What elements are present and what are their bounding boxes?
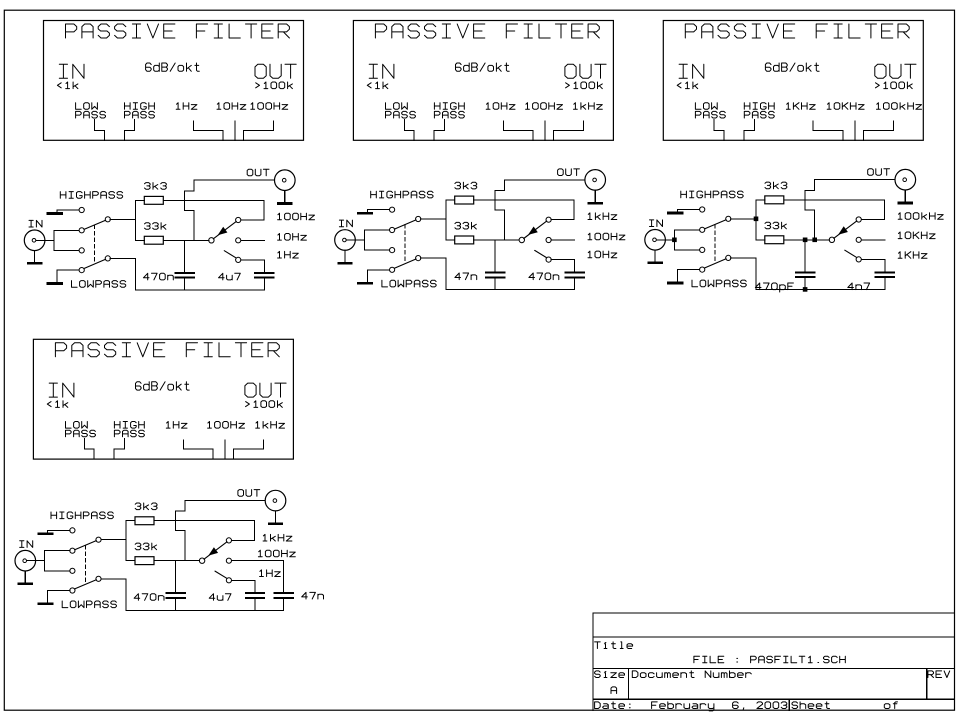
switch gang link (dashed) bbox=[714, 225, 716, 262]
resistor R2 (33k) bbox=[144, 236, 163, 244]
circuit 2 label LOWPASS bbox=[382, 280, 436, 287]
capacitor C2 bottom plate bbox=[246, 597, 264, 599]
rotary blade arrow bbox=[838, 226, 848, 234]
panel 1 label >100k bbox=[256, 82, 293, 89]
circuit 2 label HIGHPASS bbox=[371, 191, 433, 198]
circuit 1 value label 3k3 bbox=[145, 183, 167, 190]
circuit 4 output label 100Hz bbox=[258, 550, 295, 557]
title block label Size bbox=[595, 671, 625, 678]
panel 2 title PASSIVE FILTER bbox=[375, 24, 599, 38]
capacitor C1 bottom plate bbox=[486, 276, 505, 278]
wire C1 bottom lead bbox=[494, 278, 496, 289]
title block date February 6, 2003 bbox=[652, 702, 787, 711]
wire highpass throw to ground bbox=[57, 209, 79, 211]
panel 4 label 6dB/okt bbox=[136, 382, 190, 390]
panel 3 title PASSIVE FILTER bbox=[685, 24, 909, 38]
panel 1 label OUT bbox=[255, 64, 296, 78]
ground bar (OUT connector) bbox=[589, 202, 602, 205]
rotary unused throw stub bbox=[535, 250, 547, 257]
panel 3 outline (front panel drawing) bbox=[663, 21, 923, 141]
wire left bus (R1/R2 node) bbox=[135, 200, 137, 240]
ground bar (IN connector) bbox=[649, 262, 662, 265]
circuit 3 label OUT bbox=[868, 169, 890, 176]
panel 4 outline (front panel drawing) bbox=[33, 339, 293, 459]
ground bar (lowpass throw) bbox=[39, 603, 53, 606]
panel 1 frequency label 1Hz bbox=[176, 103, 197, 110]
panel 4 label LOW bbox=[66, 422, 88, 429]
circuit 3 value label 3k3 bbox=[765, 182, 787, 189]
wire lowpass pole down to bottom rail bbox=[755, 258, 757, 290]
wire lowpass pole down to bottom rail bbox=[445, 258, 447, 290]
rotary blade bbox=[834, 221, 857, 238]
switch S3b input contact bbox=[700, 247, 705, 252]
wire C1 top lead bbox=[174, 561, 176, 593]
ground stem (lowpass throw) bbox=[677, 270, 679, 282]
wire left bus (R1/R2 node) bbox=[755, 200, 757, 240]
wire bottom rail bbox=[756, 288, 885, 290]
wire R2 left lead bbox=[136, 239, 145, 241]
wire left bus (R1/R2 node) bbox=[125, 521, 127, 561]
wire C2 bottom lead bbox=[884, 278, 886, 289]
wire rotary contact 2 to C3 bbox=[232, 560, 284, 562]
panel 3 rotary switch mark left bbox=[813, 121, 843, 140]
circuit 4 value label 3k3 bbox=[135, 503, 157, 510]
capacitor C2 top plate (470n) bbox=[566, 272, 584, 274]
wire lowpass pole down to bottom rail bbox=[125, 579, 127, 611]
ground stem (OUT connector) bbox=[594, 190, 596, 202]
panel 2 label IN bbox=[369, 64, 394, 78]
title block label REV bbox=[928, 671, 950, 678]
panel 2 outline (front panel drawing) bbox=[353, 21, 613, 141]
title block outline bbox=[593, 613, 954, 710]
switch S1b input contact bbox=[79, 248, 84, 253]
rotary blade arrow bbox=[218, 227, 228, 235]
switch S3a blade bbox=[705, 220, 727, 229]
title block label of bbox=[884, 702, 897, 709]
circuit 1 label LOWPASS bbox=[72, 281, 126, 288]
connector J2a IN (BNC center pin) bbox=[343, 238, 347, 242]
panel 1 outline (front panel drawing) bbox=[44, 21, 304, 141]
wire bottom rail bbox=[126, 609, 283, 611]
panel 4 label PASS (low) bbox=[66, 430, 96, 437]
panel 1 label LOW bbox=[76, 103, 98, 110]
ground stem (highpass throw) bbox=[677, 210, 679, 212]
panel 2 frequency label 100Hz bbox=[526, 103, 563, 110]
switch S2b pole contact bbox=[416, 256, 421, 261]
switch S3b pole contact bbox=[726, 255, 731, 260]
wire tee to lower pole contact bbox=[54, 249, 79, 251]
circuit 2 output label 10Hz bbox=[588, 251, 617, 258]
switch gang link (dashed) bbox=[404, 225, 406, 262]
wire rotary contact 1 to R1 lead bbox=[241, 200, 264, 220]
wire R2 left lead bbox=[446, 239, 455, 241]
title block label Document Number bbox=[632, 671, 751, 678]
wire S4a pole to node bbox=[101, 539, 126, 541]
wire R1 left lead bbox=[136, 199, 145, 201]
panel 3 label IN bbox=[679, 64, 704, 78]
circuit 3 label HIGHPASS bbox=[681, 191, 743, 198]
wire rotary contact 3 to C2 bbox=[861, 259, 885, 271]
ground (IN connector) bbox=[654, 250, 656, 262]
wire lowpass throw to ground bbox=[367, 269, 389, 271]
switch S2a input contact bbox=[390, 227, 395, 232]
wire highpass throw to ground bbox=[48, 529, 70, 531]
wire S2a pole to node bbox=[421, 218, 446, 220]
wire S3b pole to node bbox=[731, 257, 756, 259]
capacitor C1 bottom plate bbox=[176, 277, 195, 279]
wire R2 left lead bbox=[126, 560, 135, 562]
rotary blade bbox=[524, 221, 547, 238]
wire R2 right lead to rotary pole bbox=[163, 239, 209, 241]
wire R1 right lead to selector bracket bbox=[784, 199, 885, 201]
circuit 4 label IN bbox=[20, 541, 33, 548]
panel 4 high-pass switch mark bbox=[114, 438, 124, 459]
ground bar (IN connector) bbox=[339, 262, 352, 265]
switch S4a blade bbox=[75, 541, 97, 550]
resistor R1 (3k3) bbox=[765, 196, 784, 204]
panel 2 high-pass switch mark bbox=[434, 120, 444, 141]
wire OUT net (BNC to rotary pole) bbox=[175, 501, 265, 561]
connector J4a IN (BNC outer) bbox=[15, 550, 36, 571]
panel 3 frequency label 1KHz bbox=[786, 103, 815, 110]
circuit 4 value label 4u7 bbox=[209, 594, 231, 601]
panel 3 rotary switch mark right bbox=[863, 121, 893, 140]
switch S3a pole contact bbox=[726, 216, 731, 221]
switch S2a throw contact (highpass) bbox=[390, 207, 395, 212]
title block divider (date/sheet) bbox=[788, 699, 790, 710]
ground bar (lowpass throw) bbox=[48, 282, 62, 285]
junction (C1 top node) bbox=[803, 238, 808, 243]
wire R1 left lead bbox=[126, 520, 135, 522]
ground bar (highpass throw) bbox=[669, 212, 683, 215]
panel 2 label PASS (high) bbox=[434, 111, 464, 118]
wire rotary contact 2 stub bbox=[241, 239, 264, 241]
wire R2 left lead bbox=[756, 239, 765, 241]
panel 2 rotary switch mark left bbox=[503, 121, 533, 140]
panel 3 label >100k bbox=[876, 82, 913, 89]
title block divider (below header strip) bbox=[593, 636, 954, 638]
wire IN pin to tee bbox=[27, 560, 45, 562]
panel 1 label PASS (low) bbox=[76, 111, 106, 118]
panel 3 label PASS (high) bbox=[744, 111, 774, 118]
title block label Date: bbox=[595, 702, 631, 709]
wire S4b pole to node bbox=[101, 578, 126, 580]
circuit 2 output label 1kHz bbox=[588, 213, 617, 220]
wire tee to lower pole contact bbox=[674, 249, 699, 251]
connector J1b OUT (BNC center pin) bbox=[282, 178, 286, 182]
wire C2 bottom lead bbox=[574, 278, 576, 289]
wire IN pin to tee bbox=[346, 239, 364, 241]
resistor R2 (33k) bbox=[135, 557, 154, 565]
title block label Sheet bbox=[792, 702, 830, 709]
circuit 1 output label 100Hz bbox=[278, 213, 315, 220]
capacitor C2 bottom plate bbox=[255, 277, 273, 279]
title block label Title bbox=[595, 642, 633, 649]
circuit 2 label OUT bbox=[558, 169, 580, 176]
panel 3 label <1k bbox=[677, 82, 698, 89]
circuit 4 value label 470n bbox=[134, 594, 164, 601]
title block divider (size/document) bbox=[628, 669, 630, 700]
wire C1 top lead bbox=[494, 240, 496, 272]
connector J4b OUT (BNC outer) bbox=[265, 490, 286, 511]
rotary switch S1c pole contact bbox=[209, 238, 214, 243]
switch gang link (dashed) bbox=[94, 225, 96, 262]
rotary contact 1 (100Hz) bbox=[236, 217, 241, 222]
circuit 4 label OUT bbox=[238, 490, 260, 497]
ground bar (IN connector) bbox=[28, 262, 41, 265]
wire C2 bottom lead bbox=[254, 599, 256, 610]
panel 2 low-pass switch mark bbox=[404, 120, 414, 141]
title block divider (above date row) bbox=[593, 698, 954, 700]
circuit 2 output label 100Hz bbox=[588, 233, 625, 240]
connector J4a IN (BNC center pin) bbox=[23, 559, 27, 563]
panel 4 low-pass switch mark bbox=[84, 438, 94, 459]
panel 3 rotary switch mark middle bbox=[854, 121, 856, 140]
connector J3a IN (BNC center pin) bbox=[653, 238, 657, 242]
panel 1 frequency label 10Hz bbox=[217, 103, 246, 110]
panel 3 high-pass switch mark bbox=[744, 120, 754, 141]
panel 3 frequency label 10KHz bbox=[827, 103, 864, 110]
connector J2b OUT (BNC outer) bbox=[585, 170, 606, 191]
switch S2b throw contact (lowpass) bbox=[390, 267, 395, 272]
circuit 2 label IN bbox=[339, 220, 352, 227]
circuit 1 value label 4u7 bbox=[219, 273, 241, 280]
circuit 3 output label 100kHz bbox=[898, 213, 943, 220]
wire rotary contact 2 stub bbox=[861, 239, 885, 241]
title block divider (document/rev) bbox=[926, 669, 928, 700]
rotary contact 3 (1Hz) bbox=[226, 578, 231, 583]
capacitor C1 bottom plate bbox=[796, 276, 815, 278]
panel 2 rotary switch mark middle bbox=[544, 121, 546, 140]
wire S1a pole to node bbox=[110, 218, 135, 220]
wire tee to lower pole contact bbox=[45, 570, 70, 572]
panel 1 rotary switch mark middle bbox=[234, 121, 236, 140]
wire rotary contact 1 to R1 lead bbox=[232, 521, 255, 541]
capacitor C3 top plate (47n) bbox=[274, 592, 293, 594]
wire tee vertical bbox=[53, 230, 55, 250]
panel 3 frequency label 100kHz bbox=[877, 103, 922, 110]
ground (IN connector) bbox=[24, 571, 26, 583]
wire R2 right lead to rotary pole bbox=[784, 239, 830, 241]
panel 2 label 6dB/okt bbox=[456, 63, 510, 71]
wire highpass throw to ground bbox=[678, 209, 700, 211]
wire tee to upper pole contact bbox=[54, 229, 79, 231]
switch S2a pole contact bbox=[416, 216, 421, 221]
switch S4a input contact bbox=[70, 548, 75, 553]
circuit 3 label IN bbox=[650, 220, 663, 227]
rotary contact 1 (1kHz) bbox=[226, 538, 231, 543]
ground stem (OUT connector) bbox=[904, 190, 906, 202]
connector J3b OUT (BNC outer) bbox=[895, 169, 916, 190]
switch S4a pole contact bbox=[96, 537, 101, 542]
capacitor C1 top plate (470n) bbox=[176, 272, 195, 274]
panel 2 label PASS (low) bbox=[386, 111, 416, 118]
circuit 3 value label 33k bbox=[765, 222, 786, 229]
ground bar (IN connector) bbox=[19, 582, 32, 585]
wire R1 left lead bbox=[446, 199, 455, 201]
switch S1b blade bbox=[84, 259, 106, 268]
rotary blade bbox=[213, 221, 236, 238]
wire tee to upper pole contact bbox=[674, 229, 699, 231]
switch S1b throw contact (lowpass) bbox=[79, 268, 84, 273]
wire lowpass throw to ground bbox=[48, 590, 70, 592]
circuit 4 output label 1kHz bbox=[263, 534, 292, 541]
wire C1 top lead bbox=[184, 240, 186, 272]
wire rotary contact 1 to R1 lead bbox=[861, 200, 884, 220]
connector J3a IN (BNC outer) bbox=[645, 230, 666, 251]
switch S1a throw contact (highpass) bbox=[79, 207, 84, 212]
rotary unused throw stub bbox=[224, 251, 236, 258]
wire IN pin to tee bbox=[36, 239, 54, 241]
capacitor C1 top plate (470n) bbox=[166, 592, 185, 594]
circuit 1 value label 470n bbox=[143, 273, 173, 280]
capacitor C1 bottom plate bbox=[166, 597, 185, 599]
wire C1 top lead bbox=[804, 240, 806, 272]
title block size value A bbox=[611, 687, 617, 694]
switch S1a input contact bbox=[79, 228, 84, 233]
wire tee vertical bbox=[363, 230, 365, 250]
wire lowpass throw to ground bbox=[678, 269, 700, 271]
rotary contact 3 (10Hz) bbox=[546, 257, 551, 262]
panel 1 high-pass switch mark bbox=[124, 120, 134, 141]
panel 2 label LOW bbox=[386, 103, 408, 110]
rotary switch S2c pole contact bbox=[519, 237, 524, 242]
switch S4b blade bbox=[75, 580, 97, 589]
circuit 2 value label 33k bbox=[455, 222, 476, 229]
panel 1 frequency label 100Hz bbox=[251, 103, 288, 110]
wire highpass throw to ground bbox=[367, 209, 389, 211]
panel 1 label PASS (high) bbox=[125, 111, 155, 118]
wire S1b pole to node bbox=[110, 257, 135, 259]
circuit 4 value label 47n bbox=[302, 592, 324, 599]
capacitor C3 bottom plate bbox=[274, 597, 293, 599]
connector J1b OUT (BNC outer) bbox=[275, 170, 296, 191]
panel 2 frequency label 10Hz bbox=[486, 103, 515, 110]
rotary contact 2 (100Hz) bbox=[226, 558, 231, 563]
resistor R2 (33k) bbox=[455, 236, 474, 244]
circuit 1 label OUT bbox=[247, 169, 269, 176]
ground bar (highpass throw) bbox=[358, 212, 372, 215]
wire OUT net (BNC to rotary pole) bbox=[185, 180, 275, 240]
circuit 1 output label 1Hz bbox=[278, 251, 299, 258]
rotary unused throw stub bbox=[215, 571, 227, 578]
panel 1 rotary switch mark left bbox=[193, 121, 223, 140]
circuit 3 value label 4n7 bbox=[848, 283, 870, 290]
panel 4 rotary switch mark right bbox=[233, 440, 263, 459]
switch S2b blade bbox=[394, 259, 416, 268]
junction (bottom rail node) bbox=[803, 287, 808, 292]
wire rotary contact 3 to C2 bbox=[232, 580, 256, 592]
switch S1a pole contact bbox=[105, 217, 110, 222]
circuit 2 value label 47n bbox=[455, 273, 477, 280]
panel 1 label IN bbox=[59, 64, 84, 78]
capacitor C1 top plate (470pF) bbox=[796, 271, 815, 273]
ground bar (highpass throw) bbox=[39, 533, 53, 536]
wire R1 left lead bbox=[756, 199, 765, 201]
ground stem (OUT connector) bbox=[284, 191, 286, 203]
panel 2 rotary switch mark right bbox=[553, 121, 583, 140]
wire OUT net (BNC to rotary pole) bbox=[805, 180, 895, 240]
switch S2b input contact bbox=[390, 248, 395, 253]
wire S3a pole to node bbox=[731, 218, 756, 220]
wire S2b pole to node bbox=[421, 257, 446, 259]
resistor R2 (33k) bbox=[765, 236, 784, 244]
circuit 3 output label 1KHz bbox=[898, 252, 927, 259]
circuit 1 output label 10Hz bbox=[278, 234, 307, 241]
capacitor C2 bottom plate bbox=[876, 276, 894, 278]
junction (left bus / pole wire) bbox=[754, 217, 759, 222]
wire C1 bottom lead bbox=[804, 278, 806, 289]
panel 4 label HIGH bbox=[114, 422, 144, 429]
title block text FILE : PASFILT1.SCH bbox=[694, 656, 845, 663]
panel 1 label HIGH bbox=[125, 103, 155, 110]
circuit 3 value label 470pF bbox=[755, 283, 793, 292]
panel 4 title PASSIVE FILTER bbox=[55, 343, 279, 357]
wire lowpass throw to ground bbox=[57, 269, 79, 271]
rotary contact 3 (1KHz) bbox=[856, 257, 861, 262]
circuit 4 label HIGHPASS bbox=[51, 512, 113, 519]
ground stem (highpass throw) bbox=[56, 210, 58, 212]
ground stem (highpass throw) bbox=[47, 530, 49, 532]
rotary contact 1 (100kHz) bbox=[856, 217, 861, 222]
panel 2 label >100k bbox=[566, 82, 603, 89]
ground (IN connector) bbox=[34, 251, 36, 263]
wire R2 right lead to rotary pole bbox=[474, 239, 520, 241]
wire C3 bottom lead bbox=[283, 599, 285, 610]
rotary contact 2 (100Hz) bbox=[546, 237, 551, 242]
circuit 4 output label 1Hz bbox=[260, 570, 281, 577]
capacitor C2 bottom plate bbox=[566, 276, 584, 278]
wire tee vertical bbox=[44, 551, 46, 571]
wire bottom rail bbox=[446, 289, 575, 291]
resistor R1 (3k3) bbox=[135, 517, 154, 525]
wire rotary contact 3 to C2 bbox=[551, 260, 575, 272]
panel 4 frequency label 100Hz bbox=[208, 422, 245, 429]
wire lowpass pole down to bottom rail bbox=[135, 258, 137, 290]
ground stem (lowpass throw) bbox=[47, 591, 49, 603]
circuit 4 value label 33k bbox=[135, 543, 156, 550]
rotary blade bbox=[204, 542, 227, 559]
panel 2 label OUT bbox=[565, 64, 606, 78]
circuit 2 value label 3k3 bbox=[455, 182, 477, 189]
circuit 3 output label 10KHz bbox=[898, 232, 935, 239]
ground stem (lowpass throw) bbox=[56, 270, 58, 282]
circuit 1 label HIGHPASS bbox=[60, 192, 122, 199]
panel 4 label PASS (high) bbox=[114, 430, 144, 437]
panel 1 title PASSIVE FILTER bbox=[66, 24, 290, 38]
rotary contact 1 (1kHz) bbox=[546, 217, 551, 222]
wire tee vertical bbox=[673, 230, 675, 250]
panel 1 label <1k bbox=[57, 82, 78, 89]
connector J3b OUT (BNC center pin) bbox=[903, 178, 907, 182]
panel 3 label OUT bbox=[875, 64, 916, 78]
capacitor C2 top plate (4n7) bbox=[876, 271, 894, 273]
panel 2 frequency label 1kHz bbox=[574, 103, 603, 110]
panel 4 rotary switch mark middle bbox=[224, 440, 226, 459]
ground bar (OUT connector) bbox=[269, 523, 282, 526]
circuit 3 label LOWPASS bbox=[692, 280, 746, 287]
capacitor C2 top plate (4u7) bbox=[246, 592, 264, 594]
panel 3 low-pass switch mark bbox=[714, 120, 724, 141]
panel 1 label 6dB/okt bbox=[146, 63, 200, 71]
wire R1 right lead to selector bracket bbox=[154, 520, 255, 522]
wire rotary contact 1 to R1 lead bbox=[551, 200, 574, 220]
capacitor C1 top plate (47n) bbox=[486, 272, 505, 274]
wire OUT net (BNC to rotary pole) bbox=[495, 180, 585, 240]
ground bar (OUT connector) bbox=[278, 202, 291, 205]
panel 4 label >100k bbox=[246, 401, 283, 408]
ground bar (OUT connector) bbox=[899, 202, 912, 205]
